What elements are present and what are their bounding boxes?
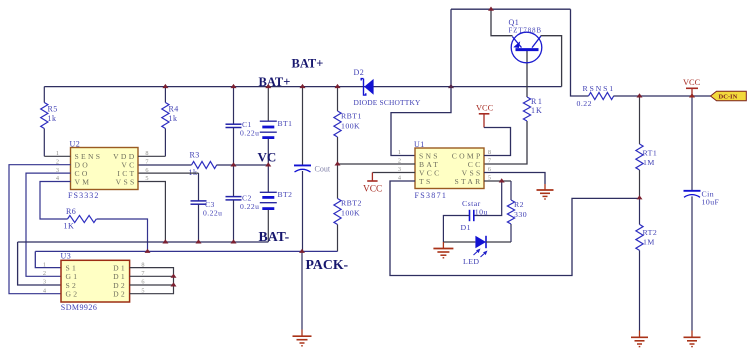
svg-text:3: 3 — [43, 279, 46, 286]
junction (501.7,181) — [499, 178, 505, 182]
svg-text:0.22: 0.22 — [577, 99, 592, 108]
svg-text:C2: C2 — [242, 193, 252, 202]
wire Q1 emitter drop — [491, 9, 513, 36]
svg-text:100K: 100K — [341, 121, 360, 130]
svg-text:U2: U2 — [70, 139, 81, 148]
wire PACK- ground drop — [301, 251, 303, 329]
IC U1 box — [398, 140, 491, 200]
capacitor Cstar — [462, 199, 488, 221]
ground at Cin — [684, 337, 701, 346]
svg-text:S2: S2 — [66, 281, 79, 290]
wire VC net right of R3 — [217, 164, 269, 166]
svg-text:BAT+: BAT+ — [292, 57, 324, 71]
svg-text:1k: 1k — [169, 114, 178, 123]
svg-text:D1: D1 — [113, 264, 127, 273]
svg-text:2: 2 — [43, 270, 46, 277]
svg-text:1: 1 — [43, 261, 46, 268]
power VCC above U1 COMP — [476, 104, 494, 128]
junction (173.5,285) — [171, 282, 177, 286]
svg-text:100K: 100K — [341, 208, 360, 217]
svg-text:R5: R5 — [48, 105, 58, 114]
svg-text:BT2: BT2 — [278, 190, 293, 199]
resistor R2 — [507, 181, 527, 242]
resistor RBT2 — [334, 164, 362, 251]
junction (147.5,251.4) — [145, 249, 151, 253]
junction (337.5,86.6) — [335, 84, 341, 88]
svg-text:PACK-: PACK- — [306, 257, 349, 272]
junction (337.5,164) — [335, 161, 341, 165]
wire U3 pin7 stub — [130, 275, 174, 277]
wire U1 VSS to ground — [484, 173, 545, 185]
resistor R5 — [41, 87, 58, 157]
wire top PACK+ y=9 — [451, 8, 571, 10]
svg-text:VCC: VCC — [683, 78, 701, 87]
capacitor Cin — [684, 96, 720, 337]
svg-text:G2: G2 — [66, 290, 80, 299]
svg-text:R1: R1 — [531, 97, 544, 106]
IC U3 box — [43, 252, 145, 313]
resistor RT2 — [636, 198, 657, 337]
svg-text:TS: TS — [419, 177, 432, 186]
wire vertical x=570.5 top to RSNS1 — [571, 9, 589, 96]
resistor R4 — [162, 87, 179, 157]
wire Q1 base to R1 — [526, 51, 528, 97]
svg-text:10u: 10u — [475, 207, 488, 216]
junction (165.4,86.6) — [162, 84, 168, 88]
svg-text:1M: 1M — [643, 238, 655, 247]
resistor R6 — [64, 207, 97, 231]
svg-text:VC: VC — [258, 150, 277, 165]
svg-text:VM: VM — [75, 177, 92, 186]
wire PACK- to S1 — [35, 251, 61, 267]
svg-text:U3: U3 — [61, 252, 72, 261]
resistor R3 — [189, 151, 217, 177]
svg-text:RSNS1: RSNS1 — [583, 84, 615, 93]
svg-text:C1: C1 — [242, 120, 252, 129]
svg-text:1k: 1k — [48, 114, 57, 123]
svg-text:D2: D2 — [113, 281, 127, 290]
svg-text:1K: 1K — [64, 222, 75, 231]
svg-text:SDM9926: SDM9926 — [61, 303, 98, 312]
wire Q1 collector to BAT+ bus — [541, 36, 562, 87]
junction (233.5,242) — [231, 239, 237, 243]
wire BAT+ bus y=86.6 — [44, 86, 561, 88]
battery BT2 — [260, 165, 293, 242]
ground PACK- — [293, 336, 312, 346]
resistor RT1 — [636, 96, 657, 198]
svg-text:DC-IN: DC-IN — [719, 93, 738, 100]
capacitor C2 — [226, 165, 260, 242]
svg-text:1: 1 — [398, 149, 401, 156]
battery BT1 — [260, 87, 293, 165]
svg-text:R2: R2 — [514, 200, 524, 209]
wire VCC to COMP pin — [484, 128, 511, 156]
svg-text:BAT-: BAT- — [259, 229, 290, 244]
svg-text:Q1: Q1 — [509, 18, 520, 27]
junction (233.5,165) — [231, 162, 237, 166]
wire U2 pin4 VM to R6 — [40, 182, 71, 220]
transistor Q1 — [509, 18, 542, 63]
junction (302.5,86.6) — [300, 84, 306, 88]
resistor RSNS1 — [577, 84, 615, 108]
svg-text:R4: R4 — [169, 105, 179, 114]
svg-text:D1: D1 — [461, 223, 471, 232]
svg-text:R3: R3 — [190, 151, 200, 160]
svg-text:DIODE SCHOTTKY: DIODE SCHOTTKY — [354, 98, 422, 107]
svg-text:BAT+: BAT+ — [259, 75, 291, 89]
junction (165.4,242) — [162, 239, 168, 243]
wire U2 pin8 VDD stub — [138, 155, 165, 157]
junction (692,96) — [689, 93, 695, 97]
capacitor Cout — [294, 87, 331, 252]
svg-text:D2: D2 — [354, 68, 365, 77]
svg-text:0.22u: 0.22u — [240, 129, 259, 138]
ground at LED anode — [433, 242, 453, 258]
svg-text:1k: 1k — [189, 168, 198, 177]
junction (198.5,242) — [196, 239, 202, 243]
svg-text:7: 7 — [145, 158, 148, 165]
wire vertical x=451 from top to SNS routing — [391, 9, 451, 155]
junction (451,86.6) — [448, 84, 454, 88]
wire R1 bottom to CC pin — [484, 121, 527, 164]
wire U3 drain bus right side — [130, 268, 174, 294]
port DC-IN — [711, 91, 747, 101]
wire U2 pin5 VSS down to BAT- — [138, 182, 165, 243]
svg-text:LED: LED — [463, 257, 480, 266]
junction (639.5,96) — [637, 93, 643, 97]
junction (639.5,197.9) — [637, 195, 643, 199]
svg-text:VCC: VCC — [363, 184, 382, 194]
svg-text:6: 6 — [145, 167, 148, 174]
LED D1 — [461, 223, 487, 266]
svg-text:VCC: VCC — [476, 104, 494, 113]
wire U2 pin1 SENS stub — [44, 155, 70, 157]
wire Cstar left to ground column — [443, 216, 469, 243]
svg-text:G1: G1 — [66, 272, 80, 281]
power VCC at DC-IN — [683, 78, 701, 96]
wire U1 BAT pin to RBT junction — [338, 163, 416, 165]
wire U2 pin2 DO to G2 — [9, 165, 71, 294]
svg-text:FS3332: FS3332 — [68, 191, 100, 200]
svg-text:R6: R6 — [66, 207, 76, 216]
junction (173.5,276.3) — [171, 274, 177, 278]
power VCC at U1 pin3 — [363, 173, 415, 195]
svg-text:RT1: RT1 — [643, 149, 658, 158]
svg-text:Cout: Cout — [315, 165, 331, 174]
wire BAT- to S2 — [18, 242, 61, 285]
resistor R1 — [523, 97, 543, 121]
svg-text:1M: 1M — [643, 158, 655, 167]
svg-text:U1: U1 — [414, 140, 425, 149]
ground at U1 VSS — [537, 190, 554, 199]
junction (233.5,86.6) — [231, 84, 237, 88]
wire U1 TS pin to RT divider — [390, 181, 640, 276]
svg-text:7: 7 — [488, 158, 491, 165]
wire LED anode row — [443, 241, 475, 243]
wire LED cathode to R2 — [486, 241, 511, 243]
svg-text:0.22u: 0.22u — [240, 202, 259, 211]
svg-text:RBT1: RBT1 — [341, 112, 362, 121]
svg-text:S1: S1 — [66, 264, 79, 273]
capacitor C3 — [138, 173, 222, 242]
svg-text:D1: D1 — [113, 272, 127, 281]
svg-text:BT1: BT1 — [278, 119, 293, 128]
wire VC net with resistor R3 — [138, 164, 192, 166]
capacitor C1 — [226, 87, 260, 165]
wire U1 STAR pin — [484, 180, 511, 182]
junction (268.3,165) — [265, 162, 271, 166]
diode D2 schottky — [354, 68, 422, 107]
svg-text:10uF: 10uF — [702, 197, 720, 206]
svg-text:FZT788B: FZT788B — [509, 28, 542, 35]
svg-text:330: 330 — [514, 210, 527, 219]
junction (491,9.2) — [488, 7, 494, 11]
junction (302,251.4) — [299, 249, 305, 253]
wire U2 pin3 CO to G1 — [26, 173, 71, 276]
wire U3 pin6 stub — [130, 284, 174, 286]
wire R6 right to PACK- — [97, 219, 148, 251]
svg-text:RT2: RT2 — [643, 228, 658, 237]
wire BAT- net y=242 — [18, 241, 269, 243]
resistor RBT1 — [334, 87, 362, 164]
ground at RT2 — [631, 337, 648, 346]
svg-text:0.22u: 0.22u — [203, 208, 222, 217]
svg-text:1K: 1K — [531, 106, 543, 115]
wire RSNS1 to DC-IN — [614, 95, 711, 97]
svg-text:STAR: STAR — [454, 177, 482, 186]
svg-text:D2: D2 — [113, 290, 127, 299]
wire Cstar to STAR — [474, 181, 502, 216]
IC U2 box — [56, 139, 149, 200]
junction (268.3,86.6) — [265, 84, 271, 88]
svg-text:RBT2: RBT2 — [341, 199, 362, 208]
svg-text:FS3871: FS3871 — [415, 191, 448, 200]
svg-text:VSS: VSS — [116, 177, 137, 186]
wire PACK- net y=251.4 — [35, 250, 337, 252]
